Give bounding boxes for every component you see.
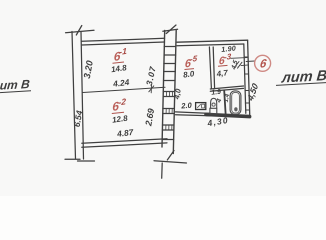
wall top right section (double line) <box>177 40 248 42</box>
room label 6-2 red bar <box>112 112 124 113</box>
wall middle continuation tail <box>161 163 164 178</box>
underline left <box>0 91 31 93</box>
niche line lower in 6-3 <box>241 64 249 67</box>
svg-text:-3: -3 <box>224 52 232 62</box>
room label 6-5 red bar <box>185 68 195 71</box>
svg-text:1.9: 1.9 <box>211 89 222 97</box>
wall right outer <box>248 40 250 117</box>
stove inner mark <box>197 104 204 108</box>
room label 6-1 red bar <box>113 62 125 63</box>
wall middle jamb ticks <box>165 92 167 96</box>
wall top room 6-1 (double line) <box>82 38 165 41</box>
wall right rungs <box>244 56 248 58</box>
svg-text:-5: -5 <box>190 54 198 64</box>
svg-text:4.87: 4.87 <box>116 127 135 139</box>
leader line to circle 6 <box>246 60 255 63</box>
wall left top break slash <box>76 26 82 36</box>
wall bottom kitchen (double line) <box>176 112 211 114</box>
wall left outer (double line) <box>72 32 76 160</box>
niche line upper in 6-3 <box>231 57 247 60</box>
bath outer <box>230 91 241 115</box>
underline right <box>276 83 326 86</box>
svg-text:-2: -2 <box>118 96 126 107</box>
svg-text:4,7: 4,7 <box>215 68 229 78</box>
toilet flush circle <box>212 103 215 106</box>
wall middle top break cap <box>163 29 178 31</box>
wall right inner <box>244 44 246 113</box>
wall between 6-1 and 6-2 <box>83 87 165 92</box>
wall middle top break slash <box>166 25 176 34</box>
toilet bowl <box>211 98 217 108</box>
wall middle bottom break line <box>154 161 187 163</box>
wall left bottom feet <box>65 158 80 160</box>
kitchen stove box <box>196 103 206 110</box>
room label 6-3 red bar <box>218 64 228 67</box>
wall left top break cap <box>66 30 95 32</box>
wall divider WC / bath <box>224 91 225 114</box>
wall middle ladder left line <box>162 31 165 148</box>
bath drain <box>234 107 237 111</box>
wall top WC (double line) <box>210 86 243 89</box>
wall bottom right thick <box>206 114 250 116</box>
wall divider kitchen / 6-3 (double line) <box>209 47 211 89</box>
svg-text:2.0: 2.0 <box>180 101 193 111</box>
wall middle ladder right line <box>173 31 176 154</box>
bath inner <box>232 92 240 113</box>
toilet tank <box>210 108 217 114</box>
svg-text:-1: -1 <box>119 46 127 57</box>
svg-text:4.24: 4.24 <box>112 77 131 89</box>
dim ticks in 6-3 <box>235 62 240 68</box>
dimension tick on 4.24 line <box>149 86 154 92</box>
svg-text:8.0: 8.0 <box>183 69 196 79</box>
apartment circle 6 <box>255 55 271 71</box>
wall middle rungs <box>164 46 176 48</box>
wall bottom room 6-2 (double line) <box>82 139 167 143</box>
wall middle bottom break slash <box>167 151 174 161</box>
